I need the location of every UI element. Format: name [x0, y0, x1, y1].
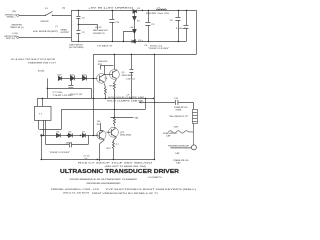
- capacitor C10 in line to jack: [154, 100, 193, 110]
- wire bottom rail: [40, 158, 154, 160]
- note text block: [11, 58, 57, 65]
- svg-text:T 1: T 1: [39, 114, 43, 116]
- svg-text:C8: C8: [170, 20, 174, 22]
- transistor Q4: [106, 127, 118, 142]
- svg-text:100uF: 100uF: [176, 28, 188, 30]
- label gnd rail: [69, 44, 169, 50]
- svg-text:ULTRASONIC TRANSDUCER DRIVER: ULTRASONIC TRANSDUCER DRIVER: [60, 169, 179, 175]
- svg-text:(+9V): (+9V): [12, 33, 18, 35]
- label S1: [33, 8, 70, 34]
- svg-text:D10: D10: [57, 74, 62, 76]
- svg-text:TUBE: TUBE: [175, 109, 181, 111]
- diode D5: [41, 133, 68, 137]
- svg-text:R1 (Rx-xxx): R1 (Rx-xxx): [150, 45, 162, 47]
- svg-text:REVERSE-ENGINEERED: REVERSE-ENGINEERED: [87, 183, 122, 185]
- wire squiggle cable: [168, 123, 193, 144]
- capacitor C7: [45, 120, 88, 147]
- diode D7: [82, 133, 97, 137]
- svg-text:(5): (5): [62, 8, 65, 10]
- capacitor C5: [145, 10, 150, 41]
- svg-text:Q1: Q1: [105, 78, 109, 80]
- svg-text:A (5V) SOLID CLAMPS! LINE: A (5V) SOLID CLAMPS! LINE: [108, 96, 145, 99]
- wire J2 line: [19, 36, 72, 38]
- svg-text:D7: D7: [82, 132, 86, 134]
- capacitor C16: [109, 10, 114, 41]
- svg-text:D2 x: D2 x: [138, 40, 143, 42]
- switch S1: [42, 11, 71, 15]
- label transducer: [168, 145, 190, 165]
- wire D2/D3 tap: [123, 31, 134, 41]
- svg-text:D6: D6: [69, 132, 73, 134]
- svg-text:Q?3: Q?3: [120, 132, 125, 134]
- diode D10: [58, 76, 71, 80]
- svg-text:"LTA MF 3.3 R 200V": "LTA MF 3.3 R 200V": [49, 151, 70, 154]
- svg-text:CAP: CAP: [176, 162, 181, 165]
- svg-text:FROM BRANDS B-95 ULTRASONIC CL: FROM BRANDS B-95 ULTRASONIC CLEANER: [70, 178, 138, 181]
- svg-text:"LTA MF 3.3 R 200V": "LTA MF 3.3 R 200V": [53, 94, 74, 97]
- diode D6: [68, 133, 82, 137]
- svg-text:OUTPUT: OUTPUT: [60, 32, 70, 34]
- diode D12: [82, 75, 97, 80]
- svg-text:10k: 10k: [97, 121, 101, 123]
- svg-text:A.B. MODE IN (MCP): A.B. MODE IN (MCP): [33, 30, 58, 33]
- capacitor C8: [175, 10, 180, 41]
- svg-text:D1-4 SHO TST B-B CYO'S NOTE: D1-4 SHO TST B-B CYO'S NOTE: [11, 58, 56, 61]
- wire +9V rail A: [71, 9, 196, 11]
- transistor Q1: [97, 65, 107, 87]
- connector J2 battery input: [17, 36, 19, 38]
- transistor Q3: [97, 123, 106, 161]
- diode D3 vertical upper: [133, 16, 137, 20]
- svg-text:C16: C16: [115, 22, 120, 24]
- connector J1 signal input: [17, 14, 19, 16]
- resistor R17: [104, 87, 106, 98]
- svg-text:(SEL NOT 12 ADHE WIL 784): (SEL NOT 12 ADHE WIL 784): [105, 165, 146, 168]
- wire line y117: [110, 116, 133, 118]
- wire mid tap from C2/C3: [78, 24, 97, 29]
- svg-text:SEL: SEL: [134, 117, 139, 119]
- svg-text:ON/OFF: ON/OFF: [40, 21, 49, 23]
- wire snubber column: [133, 11, 135, 41]
- svg-text:v1.0 DRAFT 8: v1.0 DRAFT 8: [148, 176, 163, 179]
- svg-text:(DC RETURN): (DC RETURN): [69, 47, 84, 49]
- label stabilize lvl cap: [163, 132, 178, 137]
- svg-text:CAP: CAP: [174, 125, 179, 128]
- resistor R14: [112, 141, 114, 159]
- capacitor C3: [76, 24, 80, 41]
- svg-text:C5: C5: [152, 24, 156, 26]
- svg-text:"SAL REATM 12 CP": "SAL REATM 12 CP": [169, 115, 189, 118]
- svg-text:C?: C?: [116, 144, 120, 146]
- svg-text:D1: D1: [137, 8, 141, 10]
- svg-text:(*): (*): [55, 26, 58, 28]
- diode D11: [70, 75, 82, 80]
- svg-text:(M): (M): [12, 11, 16, 13]
- svg-text:R13: R13: [107, 148, 112, 150]
- label notes above title: [84, 156, 91, 160]
- svg-text:C3: C3: [82, 32, 86, 34]
- transistor Q2: [103, 54, 119, 82]
- svg-text:MAH RED 10uH COIL: MAH RED 10uH COIL: [146, 12, 170, 15]
- svg-text:C2: C2: [82, 18, 86, 20]
- wire J1 to switch: [19, 14, 43, 16]
- svg-text:D3: D3: [137, 21, 141, 23]
- svg-text:Q2: Q2: [122, 72, 126, 74]
- svg-text:TRANSFER TOB T.CY?: TRANSFER TOB T.CY?: [28, 61, 57, 64]
- connector jack barrel: [192, 109, 197, 123]
- wire line y54: [93, 53, 196, 55]
- capacitor C15: [129, 54, 133, 98]
- svg-text:C10: C10: [174, 98, 179, 100]
- label mid right cluster: [107, 94, 145, 102]
- wire arrow line: [141, 101, 153, 103]
- svg-text:RADIO IN (+): RADIO IN (+): [10, 26, 23, 29]
- svg-text:+9V IN (+9V UNREG): +9V IN (+9V UNREG): [88, 8, 134, 10]
- svg-text:R14 C7 220uF 10uF 25V SEL/GU: R14 C7 220uF 10uF 25V SEL/GU: [78, 162, 153, 165]
- capacitor C9: [183, 10, 188, 41]
- svg-text:220uF: 220uF: [66, 142, 73, 144]
- inductor L1: [156, 9, 166, 10]
- label under bottom rail: [78, 162, 153, 169]
- label power in: [10, 25, 23, 29]
- diode D1 in rail A: [133, 10, 137, 14]
- label above line y98: [53, 92, 74, 97]
- svg-text:C15 0.01: C15 0.01: [126, 79, 136, 81]
- svg-text:C?? 100n: C?? 100n: [53, 92, 64, 94]
- svg-text:SOUND CS: SOUND CS: [93, 33, 105, 35]
- svg-text:"LTA MF 3.3 R 200V": "LTA MF 3.3 R 200V": [148, 47, 169, 50]
- svg-text:D4: D4: [131, 26, 135, 29]
- svg-text:B1 B2: B1 B2: [38, 71, 45, 73]
- svg-text:S1: S1: [45, 8, 48, 10]
- svg-text:INPUT (9V): INPUT (9V): [6, 38, 15, 40]
- svg-text:SIGNAL +: SIGNAL +: [7, 16, 17, 19]
- transformer T1: [35, 98, 52, 135]
- svg-text:RECLAIM HLP: RECLAIM HLP: [93, 29, 108, 32]
- svg-text:(P) J2: (P) J2: [95, 27, 102, 29]
- wire diode row to rail: [40, 135, 42, 159]
- wire right edge: [195, 10, 197, 54]
- svg-text:FVP ELECTRONICS RIGHT 2008 KEY: FVP ELECTRONICS RIGHT 2008 KEYBITS (WALL…: [106, 188, 196, 191]
- svg-text:C8: C8: [144, 45, 148, 47]
- svg-text:2013-11-29.SCH: 2013-11-29.SCH: [63, 193, 90, 195]
- svg-text:FLY BACK 9V: FLY BACK 9V: [98, 45, 113, 48]
- svg-text:CAP: CAP: [166, 135, 171, 138]
- svg-text:2N22-2N22: 2N22-2N22: [120, 135, 132, 137]
- wire left branch vertical: [70, 10, 72, 41]
- wire long vertical x154: [153, 54, 155, 159]
- resistor R16 cross-couple: [100, 65, 113, 69]
- wire rail B: [71, 40, 186, 42]
- svg-text:R9: R9: [97, 124, 101, 126]
- svg-text:FEEDBL.GROWELL.COM - LTD: FEEDBL.GROWELL.COM - LTD: [51, 189, 100, 191]
- svg-text:GND PWR 0V: GND PWR 0V: [69, 44, 83, 46]
- diode D2 in rail B: [132, 40, 136, 44]
- svg-text:CAP: CAP: [175, 152, 180, 155]
- svg-text:D5: D5: [57, 132, 61, 134]
- wire V1: [92, 54, 94, 135]
- transducer disc: [170, 145, 196, 150]
- svg-text:TRANSDUCER (2P: TRANSDUCER (2P: [168, 145, 190, 148]
- diode D4 vertical lower: [133, 29, 137, 33]
- capacitor C4 feedback: [47, 78, 91, 98]
- capacitor C2: [76, 10, 80, 24]
- wire line y98: [37, 97, 153, 99]
- svg-text:FIRST VERSION WITH NO DETAILS: FIRST VERSION WITH NO DETAILS OF T1: [92, 192, 159, 195]
- label stabilize tube: [169, 106, 189, 118]
- resistor R9: [113, 98, 115, 126]
- resistor R13: [113, 82, 115, 98]
- wire feedback vertical x47: [46, 78, 48, 98]
- wire branch x64: [39, 109, 61, 129]
- wire T1 secondary line y108: [61, 98, 145, 109]
- arrowhead sel line: [138, 101, 141, 103]
